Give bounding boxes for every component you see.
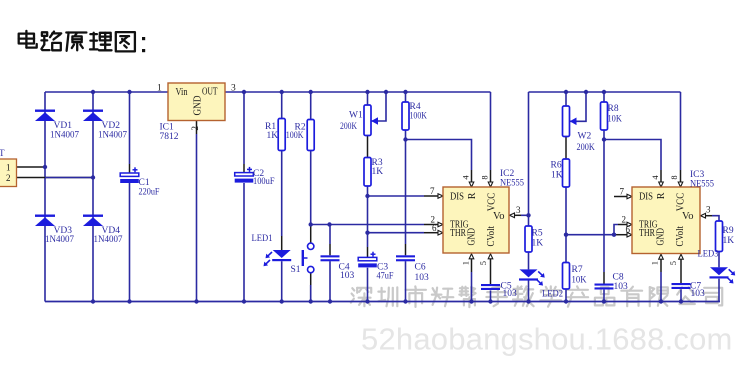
svg-text:47uF: 47uF	[377, 272, 394, 282]
svg-text:THR: THR	[639, 228, 655, 239]
capacitor C8	[595, 284, 614, 286]
resistor R8	[601, 102, 608, 130]
svg-text:OUT: OUT	[202, 86, 218, 97]
svg-text:103: 103	[503, 289, 518, 299]
LED LED2	[520, 269, 538, 277]
wire ground rail	[45, 301, 720, 303]
watermark chinese company name	[352, 288, 354, 290]
svg-text:GND: GND	[656, 228, 667, 246]
timer IC3 NE555 box	[632, 187, 700, 254]
capacitor C4	[321, 255, 340, 257]
svg-text:1K: 1K	[551, 171, 563, 181]
svg-text:1: 1	[157, 84, 162, 94]
svg-text:NE555: NE555	[500, 179, 524, 189]
wire R4 to IC2 pin4	[406, 140, 472, 171]
timer IC2 NE555 box	[443, 187, 509, 253]
wire IC3 DIS pin7 stub	[614, 196, 627, 198]
svg-text:R4: R4	[410, 102, 421, 112]
wire IC2 pin1 GND to rail	[471, 258, 473, 272]
potentiometer W1	[364, 105, 371, 136]
svg-text:C1: C1	[139, 178, 150, 188]
svg-text:1: 1	[649, 261, 659, 265]
svg-text:VCC: VCC	[675, 193, 686, 212]
svg-text:R6: R6	[551, 161, 562, 171]
svg-text:Vin: Vin	[176, 87, 188, 98]
wire R8 to IC3 pin4	[604, 140, 661, 171]
svg-text:IC1: IC1	[160, 123, 175, 133]
svg-text:R8: R8	[608, 104, 619, 114]
svg-text:LED1: LED1	[252, 234, 273, 244]
resistor R1	[278, 119, 285, 151]
wire W1-R3-C3 branch	[367, 92, 369, 105]
wire IC3 pin8 drop	[680, 92, 682, 170]
LED LED3	[710, 267, 728, 275]
svg-text:103: 103	[614, 282, 629, 292]
svg-text:103: 103	[415, 273, 430, 283]
svg-text:DIS: DIS	[639, 192, 653, 203]
wire R7 to IC3 TRIG THR	[566, 234, 614, 236]
switch S1 pushbutton	[308, 243, 314, 249]
potentiometer W2	[563, 106, 570, 137]
svg-text:1: 1	[460, 261, 470, 265]
svg-text:IC2: IC2	[500, 169, 515, 179]
svg-text:200K: 200K	[340, 122, 357, 132]
wire W2-R6-R7 branch	[565, 92, 567, 106]
svg-text:W2: W2	[578, 132, 592, 142]
svg-text:W1: W1	[349, 111, 363, 121]
svg-text:1K: 1K	[372, 167, 384, 177]
svg-text:7812: 7812	[160, 132, 179, 142]
wire R1-LED1 branch	[281, 92, 283, 119]
diode VD4	[83, 215, 103, 217]
svg-text:52haobangshou.1688.com: 52haobangshou.1688.com	[361, 322, 733, 357]
wire IC2 TRIG pin2	[311, 224, 424, 226]
title text: circuit schematic diagram	[25, 31, 27, 48]
junction dots mid circuit	[43, 165, 47, 169]
svg-text:1K: 1K	[532, 239, 544, 249]
svg-text:10K: 10K	[572, 276, 587, 286]
svg-text:7: 7	[620, 186, 625, 196]
svg-text:R5: R5	[532, 229, 543, 239]
svg-text:DIS: DIS	[450, 192, 464, 203]
svg-text:5: 5	[478, 261, 488, 265]
wire right top supply	[529, 91, 681, 93]
junction dots on top supply wire	[91, 90, 95, 94]
wire connector pin2 to bridge	[17, 177, 94, 179]
resistor R3	[364, 158, 371, 187]
regulator IC1 7812 box	[168, 83, 225, 121]
resistor R9	[716, 221, 723, 252]
svg-text:8: 8	[669, 175, 679, 179]
svg-text:3: 3	[706, 204, 711, 214]
capacitor C2	[247, 168, 252, 170]
svg-text:C6: C6	[415, 263, 426, 273]
svg-text:Vo: Vo	[682, 211, 694, 222]
wire left column 2	[92, 92, 94, 302]
capacitor C1	[133, 169, 138, 171]
svg-text:LED2: LED2	[542, 290, 563, 300]
wire left column 1	[44, 92, 46, 302]
svg-text:2: 2	[190, 126, 200, 131]
svg-text:LED3: LED3	[698, 250, 719, 260]
svg-text:8: 8	[480, 175, 490, 179]
wire IC1 GND to ground rail	[196, 121, 198, 135]
svg-text:3: 3	[231, 84, 236, 94]
svg-text:6: 6	[432, 223, 437, 233]
wire IC2 pin5 CVolt to C5	[490, 258, 492, 284]
capacitor C5	[481, 284, 500, 286]
svg-text:100K: 100K	[410, 112, 428, 122]
svg-text:R9: R9	[723, 226, 734, 236]
svg-text:VD2: VD2	[102, 121, 121, 131]
svg-text:2: 2	[6, 173, 11, 183]
svg-text:CVolt: CVolt	[675, 226, 686, 247]
svg-text:VCC: VCC	[486, 193, 497, 212]
svg-text:GND: GND	[193, 96, 204, 116]
svg-text:1N4007: 1N4007	[98, 131, 127, 141]
wire C2 branch	[243, 92, 245, 164]
wire IC3 Vo pin3 to R9	[701, 213, 706, 218]
svg-text:C8: C8	[613, 273, 624, 283]
wire C4 branch	[329, 225, 331, 245]
diode VD3	[35, 215, 55, 217]
capacitor C6	[396, 255, 415, 257]
svg-text:2: 2	[622, 215, 627, 225]
svg-text:S1: S1	[291, 265, 301, 275]
svg-text:100uF: 100uF	[253, 177, 275, 187]
resistor R2	[307, 120, 314, 151]
svg-text:R: R	[656, 192, 667, 199]
wire IC3 pin1 GND to rail	[660, 259, 662, 273]
svg-text:T: T	[0, 148, 5, 158]
wire R8-C8 branch	[603, 92, 605, 102]
svg-text:1K: 1K	[267, 131, 279, 141]
svg-text:Vo: Vo	[493, 211, 505, 222]
svg-text:NE555: NE555	[690, 180, 714, 190]
wire IC2 DIS pin7	[368, 195, 425, 197]
wire C1 branch	[129, 92, 131, 164]
svg-text:3: 3	[516, 205, 521, 215]
wire IC2 pin8 drop	[490, 92, 492, 170]
svg-text:CVolt: CVolt	[486, 226, 497, 247]
svg-text:6: 6	[626, 224, 631, 234]
svg-text:220uF: 220uF	[139, 188, 160, 198]
wire R9-LED3 branch	[718, 252, 720, 268]
svg-text:10K: 10K	[608, 115, 623, 125]
capacitor C7	[672, 283, 691, 285]
wire R4-C6 branch	[405, 92, 407, 102]
svg-text:200K: 200K	[577, 143, 595, 153]
svg-text:IC3: IC3	[690, 170, 705, 180]
wire W1 wiper to top	[372, 92, 387, 121]
svg-text:1N4007: 1N4007	[94, 235, 123, 245]
svg-text:103: 103	[691, 289, 706, 299]
svg-text:R7: R7	[572, 265, 583, 275]
svg-text:1N4007: 1N4007	[50, 131, 79, 141]
wire IC2 Vo pin3 to R5	[510, 213, 515, 218]
wire R2-S1 branch	[310, 92, 312, 120]
resistor R4	[402, 102, 409, 130]
capacitor C3	[371, 253, 376, 255]
wire connector pin1 to bridge	[17, 166, 46, 168]
wire W2 wiper to top	[570, 92, 586, 121]
diode VD2	[83, 110, 103, 112]
diode VD1	[35, 110, 55, 112]
connector J1	[0, 159, 17, 187]
LED LED1	[273, 250, 291, 258]
svg-text:1: 1	[6, 163, 11, 173]
wire IC2 THR pin6	[368, 232, 425, 234]
svg-text:GND: GND	[467, 228, 478, 246]
svg-text:5: 5	[668, 261, 678, 265]
resistor R7	[563, 263, 570, 290]
wire top supply rail from bridge to IC2 VCC	[45, 91, 491, 93]
svg-text:VD1: VD1	[54, 121, 73, 131]
svg-text:R: R	[467, 192, 478, 199]
svg-text:1N4007: 1N4007	[45, 235, 74, 245]
junction dots on ground rail	[91, 299, 95, 303]
resistor R6	[563, 159, 570, 187]
svg-text:7: 7	[430, 186, 435, 196]
svg-text:103: 103	[340, 271, 355, 281]
svg-text:THR: THR	[450, 228, 466, 239]
resistor R5	[525, 226, 532, 252]
wire R5-LED2 branch	[528, 92, 530, 226]
wire IC3 pin5 CVolt to C7	[680, 259, 682, 284]
svg-text:1K: 1K	[723, 236, 735, 246]
svg-text:100K: 100K	[286, 131, 304, 141]
